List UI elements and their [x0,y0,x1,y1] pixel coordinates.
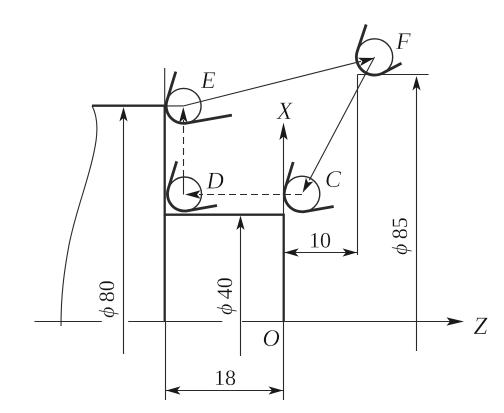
svg-text:O: O [263,326,280,352]
Z axis arrowhead [447,317,465,325]
tool F cutting edges [356,25,401,76]
svg-text:Z: Z [474,313,489,340]
Z axis centerline segment right [242,321,451,323]
phi85 extension line horizontal [358,74,429,76]
phi80 arrowhead [119,107,127,122]
arrowhead at F pointing right [358,58,375,66]
arrowhead at D pointing left [185,190,201,198]
svg-text:E: E [200,68,216,94]
arrowhead at C pointing down-left [303,178,314,193]
tool nose circle C [284,176,320,212]
X axis line [283,128,285,214]
10 dimension extension line vertical [357,75,359,256]
tool C cutting edges [284,162,333,212]
path line E to F [184,61,361,106]
Z axis centerline segment left [35,321,102,323]
tool nose circle D [168,177,202,211]
svg-text:ϕ 40: ϕ 40 [212,277,237,315]
phi40 arrowhead [236,216,244,231]
tool nose circle E [166,88,201,123]
18 dimension right extension line [283,322,285,400]
18 dimension left arrowhead [166,386,181,394]
tool nose circle F [356,39,392,75]
arrowhead at E pointing up [179,107,187,123]
thin vertical extension above shoulder corner [164,68,166,106]
workpiece phi40 surface [164,214,284,216]
workpiece top edge (phi80 surface) [92,105,165,107]
break line curve [61,106,97,326]
18 dimension line [166,390,284,392]
10 dimension left arrowhead [284,248,299,256]
thin horizontal from corner to point E [165,105,184,107]
svg-text:ϕ 85: ϕ 85 [387,217,412,255]
dashed path C to D [199,194,302,196]
18 dimension right arrowhead [269,386,284,394]
svg-text:D: D [206,169,224,195]
svg-text:C: C [325,167,342,193]
svg-text:ϕ 80: ϕ 80 [94,280,119,318]
10 dimension right arrowhead [343,248,358,256]
workpiece shoulder face vertical [164,105,166,321]
svg-text:18: 18 [214,365,236,390]
10 dimension line [284,252,358,254]
phi85 arrowhead [412,76,420,91]
phi40 dimension line [240,218,242,356]
path line F to C [309,57,374,180]
X axis arrowhead [279,123,287,141]
phi85 dimension line [416,78,418,351]
phi80 dimension line [123,110,125,354]
workpiece end face [283,214,285,321]
tool D cutting edges [167,161,217,211]
dashed path D to E [183,120,185,177]
Z axis centerline segment middle [128,321,222,323]
svg-text:10: 10 [309,228,331,253]
tool E cutting edges [166,72,232,124]
svg-text:X: X [276,98,294,125]
svg-text:F: F [395,29,411,55]
18 dimension left extension line [165,322,167,400]
solid elbow inside D [183,177,185,195]
